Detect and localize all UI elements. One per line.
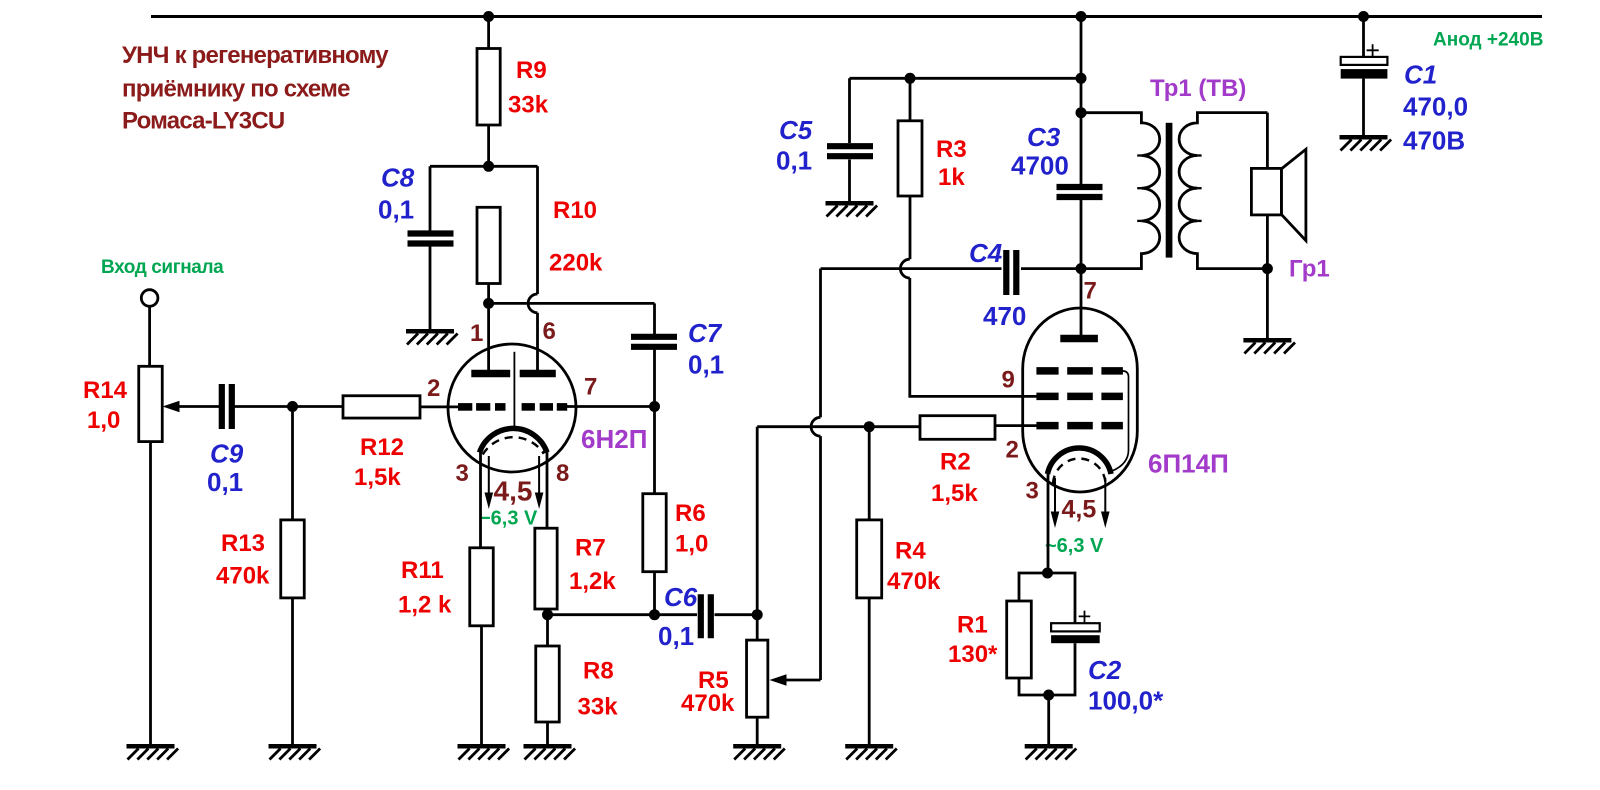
tube U1 anode pin6 plate [520,370,556,377]
heater arrow pin5 tube2 [1101,478,1110,528]
resistor R2 [920,416,995,440]
wire node A to pin6 branch [489,165,538,168]
node grid/R4 junction [864,421,875,432]
svg-text:33k: 33k [578,694,619,721]
wire R4 to ground [868,598,871,744]
svg-text:0,1: 0,1 [688,350,724,380]
svg-text:С1: С1 [1404,60,1437,90]
node R7/R8/C6 junction [542,609,553,620]
node cathode/R1/C2 junction [1042,568,1053,579]
wire speaker to ground [1266,215,1269,338]
svg-text:Ромаса-LY3CU: Ромаса-LY3CU [122,108,284,135]
capacitor C3 [1057,187,1103,197]
wire down to C7 [653,303,656,334]
ground under R13 [269,746,321,759]
wire to R4 [868,427,871,520]
node B junction [483,298,494,309]
wire feedback lower [819,436,822,680]
wire R7 to node [545,609,548,615]
speaker Гр1 box [1251,168,1281,215]
svg-text:R4: R4 [895,538,926,565]
svg-text:1k: 1k [938,164,965,191]
ground under R1/C2 [1025,746,1077,759]
wire C9 to R12 [233,405,344,408]
svg-text:1: 1 [470,320,483,347]
svg-text:R6: R6 [675,500,706,527]
svg-text:470: 470 [983,301,1026,331]
node R3 top junction [905,73,916,84]
resistor R6 [643,494,666,572]
tube U1 cathode arc [480,428,548,452]
wire R14 to ground [149,442,152,744]
capacitor C7 [631,337,677,347]
svg-text:~6,3 V: ~6,3 V [1045,535,1104,557]
wire down to C8 [429,166,432,231]
svg-text:Тр1 (ТВ): Тр1 (ТВ) [1150,75,1246,102]
wire pin3 to R11 [479,452,482,548]
speaker Гр1 horn [1281,149,1306,240]
svg-text:0,1: 0,1 [658,621,694,651]
svg-text:1,2 k: 1,2 k [398,592,452,619]
svg-text:R2: R2 [940,449,971,476]
wire grid line to R2 [757,425,920,428]
heater arrow pin5 [535,456,544,509]
tube U2 heater dashed arc [1053,459,1106,484]
svg-text:0,1: 0,1 [378,195,414,225]
wire pin3 cathode down [1047,470,1050,573]
svg-text:приёмнику по схеме: приёмнику по схеме [122,76,350,103]
svg-text:R8: R8 [583,658,614,685]
wire R3 to pin9 grid [910,278,1037,396]
wire C6 node up to grid line [756,427,759,615]
resistor R8 [536,646,560,722]
wire hop over node B wire [528,294,537,313]
resistor R4 [857,520,882,598]
wire to C2 [1048,573,1076,624]
node R6 bottom junction [649,609,660,620]
svg-text:Гр1: Гр1 [1289,256,1330,283]
node speaker/secondary junction [1262,263,1273,274]
svg-text:R11: R11 [401,557,444,584]
wire C5/R3 top line [850,77,1082,80]
wire C4 to anode node [1021,267,1081,270]
svg-text:R9: R9 [516,57,547,84]
svg-text:220k: 220k [549,250,603,277]
wire C6 to R5 [715,613,758,616]
wire R13 to ground [291,598,294,744]
wiper arrow R5 [770,674,821,686]
wire hop over grid wire [811,417,820,436]
wire node B to pin1 anode [487,303,490,371]
svg-text:6: 6 [543,318,556,345]
wire B+ rail [151,15,1542,18]
wire to R6 [653,407,656,494]
svg-text:4,5: 4,5 [1062,496,1097,524]
svg-text:R7: R7 [575,535,606,562]
wire C1 to ground [1362,79,1365,135]
wire C5 to ground [848,160,851,202]
wire R5 to ground [756,717,759,744]
wire pin6 to anode [536,313,539,371]
heater arrow pin4 tube2 [1051,478,1060,528]
wire R6 to C6 line [653,572,656,615]
wire to R8 [546,615,549,646]
svg-text:С6: С6 [664,582,698,612]
svg-text:С9: С9 [210,439,244,469]
tube U1 heater dashed arc [483,437,544,454]
capacitor C8 [408,234,454,244]
wire node A to C8 [430,165,489,168]
svg-text:130*: 130* [948,641,998,668]
wire C3 to anode pin7 [1080,200,1083,336]
svg-text:7: 7 [1084,278,1097,305]
svg-text:33k: 33k [508,92,549,119]
tube U2 grid3-cathode connection [1112,371,1129,471]
wire to R3 [909,78,912,121]
svg-text:4700: 4700 [1011,151,1069,181]
svg-text:0,1: 0,1 [207,467,243,497]
svg-text:1,5k: 1,5k [931,480,978,507]
tube U1 6Н2П envelope [448,344,576,472]
resistor R12 [343,396,420,418]
ground under R5 [733,746,785,759]
svg-text:R13: R13 [221,530,265,557]
svg-text:8: 8 [556,460,569,487]
tube U1 divider [513,352,515,430]
tube U2 grid2 dashes [1036,393,1123,401]
svg-text:1,5k: 1,5k [354,464,401,491]
wire C2 to bottom node [1049,643,1075,695]
svg-text:С3: С3 [1027,122,1061,152]
resistor R10 [477,207,500,283]
svg-text:С8: С8 [381,163,415,193]
wire to R5 [756,615,759,640]
wire R12 to pin2 [420,405,459,408]
node C6/R5/grid junction [752,609,763,620]
svg-text:2: 2 [427,375,440,402]
svg-text:470k: 470k [681,690,735,717]
wire R1 to bottom node [1019,678,1049,695]
node R1/C2 bottom junction [1043,690,1054,701]
transformer Tp1 primary winding [1081,113,1160,269]
wire node to C6 [548,613,698,616]
transformer Tp1 secondary winding [1179,113,1267,269]
wire to ground [1047,695,1050,744]
node anode/C4/primary junction [1076,263,1087,274]
transformer Tp1 core [1166,123,1173,258]
wire R9 to node A [487,125,490,166]
wire rail to C1 [1362,17,1365,58]
svg-text:R14: R14 [83,377,128,404]
ground under R11 [458,746,510,759]
svg-text:470,0: 470,0 [1403,92,1468,122]
potentiometer R5 [747,640,768,717]
wire to R1 [1019,573,1048,601]
wire feedback to C4 [821,267,1002,270]
svg-text:С7: С7 [688,318,723,348]
svg-text:Вход сигнала: Вход сигнала [101,257,224,278]
ground under speaker [1243,340,1295,353]
wire C8 to ground [429,247,432,330]
node C9/R13/R12 junction [287,401,298,412]
heater arrow pin4 [485,456,494,509]
capacitor C5 [827,146,873,156]
node pin7/C7/R6 junction [649,401,660,412]
wire rail to R9 [487,17,490,50]
wire hop over C4 wire [900,259,909,278]
svg-text:0,1: 0,1 [776,146,812,176]
svg-text:470k: 470k [887,568,941,595]
wire to R13 [291,407,294,520]
wire R3 lower [909,196,912,259]
capacitor C4 [1006,250,1016,295]
ground under R14 [127,746,179,759]
svg-text:С5: С5 [779,115,813,145]
wire pin8 to R7 [546,452,549,528]
svg-text:Анод +240В: Анод +240В [1433,30,1543,51]
svg-text:1,0: 1,0 [675,531,708,558]
tube U2 grid1 dashes [1036,422,1123,430]
capacitor C6 [701,594,711,638]
svg-text:6Н2П: 6Н2П [581,424,647,454]
svg-text:R10: R10 [553,197,597,224]
tube U2 6П14П envelope [1023,308,1138,492]
ground under C5 [826,203,878,216]
svg-text:R1: R1 [957,612,988,639]
svg-text:2: 2 [1006,437,1019,464]
input terminal [141,290,158,307]
svg-text:УНЧ к регенеративному: УНЧ к регенеративному [122,42,389,69]
node transformer top junction [1076,107,1087,118]
wire feedback upper [819,269,822,418]
wire R10 to node B [487,283,490,303]
ground under R8 [524,746,576,759]
svg-text:−6,3 V: −6,3 V [479,508,538,530]
svg-text:9: 9 [1002,367,1015,394]
node A junction [483,161,494,172]
svg-text:1,0: 1,0 [87,407,120,434]
tube U1 grid dashes [458,403,567,411]
svg-text:С2: С2 [1088,655,1122,685]
wire B+ down to C3 [1080,17,1083,185]
svg-text:1,2k: 1,2k [569,568,616,595]
wire R11 to ground [480,626,483,744]
svg-text:7: 7 [584,374,597,401]
tube U2 grid3 dashes [1036,367,1123,375]
node rail/output-stage junction [1076,11,1087,22]
svg-text:6П14П: 6П14П [1148,449,1229,479]
resistor R7 [535,528,557,609]
svg-text:100,0*: 100,0* [1088,686,1164,716]
ground under R4 [845,746,897,759]
resistor R9 [477,49,500,126]
resistor R3 [898,121,922,196]
node rail/C1 junction [1358,11,1369,22]
svg-text:С4: С4 [969,238,1003,268]
svg-text:3: 3 [456,460,469,487]
node rail/R9 junction [483,11,494,22]
node B+ line junction [1076,73,1087,84]
ground under C1 [1340,137,1392,150]
svg-text:470В: 470В [1403,126,1465,156]
tube U1 anode pin1 plate [471,370,510,377]
svg-text:3: 3 [1026,478,1039,505]
resistor R13 [281,520,305,598]
capacitor C9 [222,384,232,429]
wire pin7 to node [566,405,655,408]
wiper arrow R14 [163,401,220,413]
svg-text:470k: 470k [216,563,270,590]
wire pin6 upper [536,166,539,294]
potentiometer R14 [139,366,163,441]
svg-text:R12: R12 [360,434,404,461]
wire input to R14 [148,306,151,366]
wire node B to C7 [489,302,655,305]
tube U2 cathode arc [1048,448,1112,474]
ground under C8 [406,331,458,344]
title text [122,42,389,135]
resistor R11 [470,548,494,626]
wire C7 to pin7 node [653,350,656,407]
capacitor C1 electrolytic [1341,44,1388,78]
wire R8 to ground [546,722,549,744]
wire R2 to pin2 grid [995,424,1037,427]
svg-text:4,5: 4,5 [494,476,533,507]
capacitor C2 electrolytic [1051,611,1100,644]
tube U2 anode plate [1060,335,1098,342]
svg-text:R3: R3 [936,136,967,163]
resistor R1 [1007,601,1032,678]
wire to C5 [848,78,851,143]
wire secondary to speaker [1266,113,1269,169]
